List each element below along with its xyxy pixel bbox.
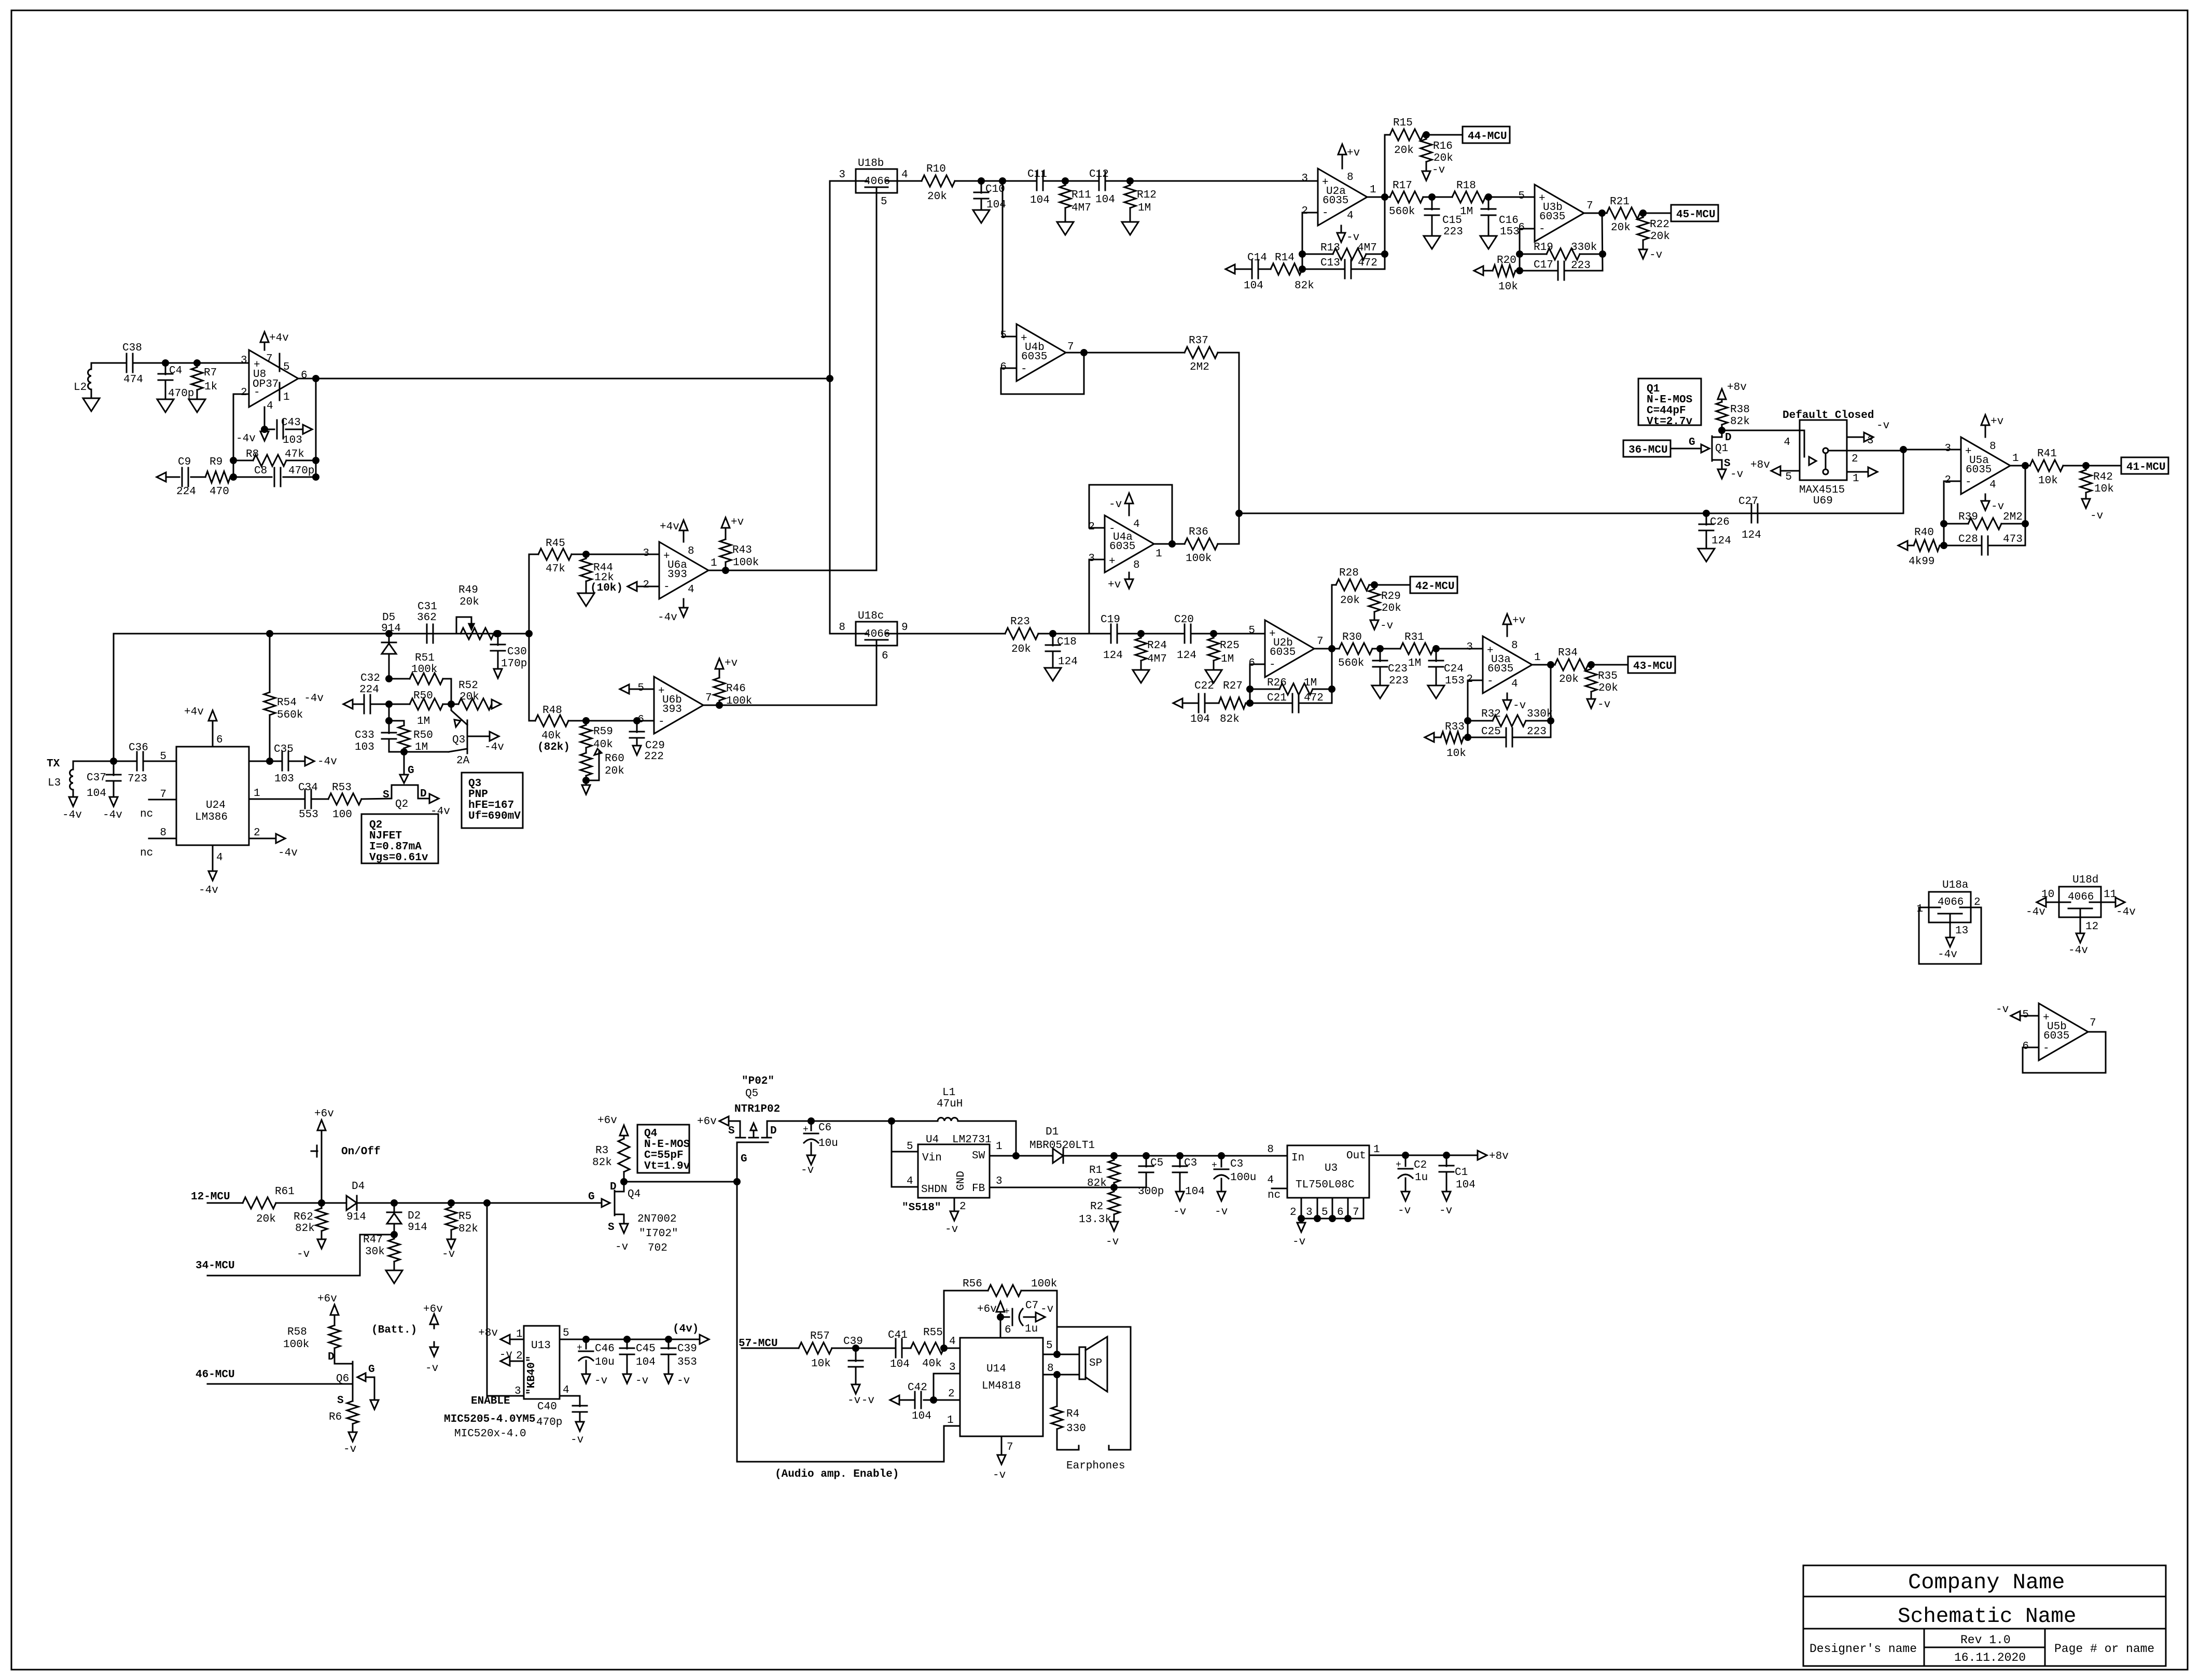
- pin2 wire U13: [500, 1356, 524, 1366]
- junction: [827, 376, 833, 382]
- svg-text:S: S: [1724, 458, 1731, 470]
- svg-text:100k: 100k: [1186, 553, 1212, 565]
- svg-text:3: 3: [643, 548, 649, 559]
- svg-text:4: 4: [901, 169, 908, 181]
- rail -4v L3: [69, 797, 77, 806]
- svg-text:R21: R21: [1610, 196, 1630, 208]
- svg-text:470p: 470p: [536, 1417, 562, 1429]
- junction Q4 drain: [621, 1179, 627, 1185]
- resistor R1: [1108, 1156, 1120, 1187]
- svg-text:SHDN: SHDN: [921, 1184, 947, 1196]
- pin 1 U4: [996, 1141, 1003, 1153]
- svg-text:-v: -v: [615, 1241, 628, 1253]
- label C45: [636, 1343, 656, 1355]
- label R18: [1456, 180, 1476, 192]
- label -v U13 pin2: [499, 1349, 512, 1361]
- svg-text:Vgs=0.61v: Vgs=0.61v: [369, 852, 428, 864]
- net arrow U5b pin5: [2011, 1011, 2039, 1020]
- rail -v R22: [1639, 249, 1647, 259]
- label -v R42: [2090, 510, 2103, 522]
- label +6v R58: [317, 1293, 337, 1305]
- capacitor C35: [282, 752, 305, 771]
- pin10 arrow U18d: [2037, 898, 2059, 907]
- svg-text:104: 104: [87, 788, 106, 800]
- rail -v C42: [890, 1395, 899, 1405]
- pin 5 U14: [1046, 1340, 1053, 1352]
- feedback U2a pin2: [1302, 213, 1318, 269]
- svg-text:914: 914: [408, 1222, 427, 1234]
- label Earphones: [1066, 1460, 1125, 1472]
- value C7 1u: [1025, 1323, 1038, 1335]
- svg-text:-: -: [1322, 207, 1329, 219]
- value R44 12k: [594, 572, 614, 584]
- value R13 4M7: [1357, 242, 1377, 254]
- label C28: [1958, 534, 1978, 545]
- svg-text:1u: 1u: [1415, 1172, 1428, 1184]
- label -4v C35: [317, 756, 337, 768]
- pin 7 U2b: [1317, 636, 1324, 648]
- pin7 stub U24: [149, 799, 176, 801]
- wire U2a out: [1367, 197, 1390, 198]
- label C32: [360, 673, 380, 684]
- loop wire U18a pins 1-2: [1919, 907, 1981, 964]
- label C27: [1738, 496, 1758, 508]
- svg-text:-v: -v: [343, 1444, 356, 1455]
- resistor R50 lower 1M: [389, 721, 410, 752]
- svg-text:NTR1P02: NTR1P02: [734, 1103, 780, 1115]
- audio enable wire: [737, 1182, 960, 1462]
- svg-text:C45: C45: [636, 1343, 656, 1355]
- net arrow C9: [157, 472, 166, 482]
- rail -4v U24 pin2: [276, 834, 285, 843]
- earphone jack brackets: [1057, 1446, 1131, 1450]
- pin2 stub U24: [249, 838, 276, 839]
- svg-text:C35: C35: [274, 744, 294, 755]
- label L1: [942, 1087, 955, 1099]
- value C5 300p: [1138, 1186, 1164, 1198]
- plus U6a: [663, 551, 670, 563]
- resistor R12: [1124, 181, 1136, 222]
- wire to U4b pin5: [1003, 181, 1017, 337]
- svg-text:20k: 20k: [256, 1213, 276, 1225]
- pin11 arrow U18d: [2101, 898, 2125, 907]
- bus vertical from U8 to U18b/U18c: [830, 181, 856, 634]
- value R36 100k: [1186, 553, 1212, 565]
- svg-text:104: 104: [1030, 194, 1050, 206]
- label C26: [1710, 516, 1730, 528]
- svg-text:D1: D1: [1046, 1126, 1059, 1138]
- label -4v U18a: [1938, 949, 1957, 961]
- refdes U5b: [2047, 1021, 2067, 1033]
- value C40 470p: [536, 1417, 562, 1429]
- svg-text:R26: R26: [1267, 677, 1287, 689]
- vertical TX to long wire: [113, 634, 115, 761]
- svg-text:6: 6: [1337, 1207, 1344, 1219]
- refdes U6a: [667, 559, 687, 571]
- svg-text:D: D: [1725, 432, 1732, 444]
- label C30: [507, 646, 527, 658]
- pin 2 U8: [241, 387, 247, 399]
- label -4v U6a: [658, 612, 677, 624]
- pin3 stub U14: [934, 1374, 960, 1400]
- value C29 222: [644, 751, 664, 763]
- capacitor C28: [1944, 536, 2025, 555]
- junction: [313, 458, 319, 464]
- junction: [1640, 211, 1646, 216]
- svg-text:6035: 6035: [1487, 663, 1513, 675]
- svg-text:-v: -v: [1996, 1004, 2009, 1016]
- svg-text:40k: 40k: [922, 1358, 942, 1370]
- analog switch U18c: [856, 622, 897, 646]
- label R2: [1090, 1201, 1103, 1213]
- svg-text:C14: C14: [1247, 252, 1267, 264]
- ground C24: [1428, 685, 1444, 698]
- pin 8 U14: [1047, 1363, 1054, 1375]
- rail +8v U69 pin5: [1771, 466, 1780, 475]
- svg-text:124: 124: [1742, 529, 1761, 541]
- svg-text:C20: C20: [1174, 614, 1194, 626]
- svg-text:4M7: 4M7: [1147, 653, 1167, 665]
- pin 13 U18a: [1955, 925, 1968, 937]
- pin 4 U2a: [1347, 210, 1354, 222]
- net arrow U6b pin5: [620, 684, 654, 694]
- svg-text:C24: C24: [1444, 663, 1464, 675]
- svg-text:8: 8: [1347, 172, 1354, 184]
- wire: [1053, 633, 1111, 635]
- pin 4 U69: [1784, 437, 1790, 449]
- rail -4v C32: [343, 699, 353, 709]
- label C3a: [1184, 1157, 1197, 1169]
- title Page # or name: [2054, 1642, 2154, 1656]
- svg-text:R51: R51: [415, 652, 435, 664]
- svg-text:47k: 47k: [546, 563, 565, 575]
- svg-text:-v: -v: [1730, 469, 1743, 481]
- svg-text:553: 553: [299, 809, 318, 821]
- resistor R51: [389, 673, 451, 704]
- svg-text:6035: 6035: [1539, 211, 1565, 223]
- svg-text:7: 7: [1007, 1441, 1013, 1453]
- svg-text:R50: R50: [413, 730, 433, 741]
- svg-text:U13: U13: [531, 1340, 551, 1352]
- svg-text:C31: C31: [417, 601, 437, 613]
- net arrow R20: [1474, 266, 1483, 275]
- resistor R39: [1944, 518, 2025, 529]
- pin 3 U3: [1306, 1207, 1313, 1219]
- junction: [1050, 631, 1056, 637]
- rail -v R5: [447, 1239, 455, 1249]
- pin8 stub U24: [149, 838, 176, 839]
- svg-text:-v: -v: [1649, 249, 1662, 261]
- value C24 153: [1445, 675, 1465, 687]
- value C37 104: [87, 788, 106, 800]
- svg-text:C38: C38: [122, 342, 142, 354]
- svg-text:R39: R39: [1958, 511, 1978, 523]
- label -4v U8: [236, 433, 256, 445]
- value R55 40k: [922, 1358, 942, 1370]
- junction: [717, 703, 722, 708]
- svg-text:Q3: Q3: [452, 734, 465, 746]
- part U6a 393: [667, 569, 687, 581]
- title Rev 1.0: [1960, 1633, 2011, 1647]
- label U18b: [858, 158, 884, 170]
- label -v R22: [1649, 249, 1662, 261]
- label -v R2: [1106, 1236, 1119, 1248]
- svg-text:+v: +v: [1512, 615, 1525, 627]
- capacitor C27: [1751, 504, 1758, 523]
- svg-text:5: 5: [1518, 190, 1525, 202]
- svg-text:Q3: Q3: [468, 778, 481, 790]
- R56 feedback branch: [944, 1291, 988, 1348]
- svg-text:4: 4: [688, 584, 694, 596]
- svg-text:82k: 82k: [458, 1223, 478, 1235]
- pin 3 U2a: [1301, 173, 1308, 185]
- svg-text:-: -: [1539, 223, 1546, 235]
- label R15: [1393, 117, 1413, 129]
- value R50 lower 1M: [415, 741, 428, 753]
- svg-text:1: 1: [1373, 1144, 1380, 1156]
- ground R60: [582, 785, 590, 794]
- capacitor C36: [137, 752, 143, 771]
- net arrow C22: [1173, 698, 1182, 708]
- svg-text:Q1: Q1: [1647, 383, 1660, 395]
- value R4 330: [1066, 1423, 1086, 1435]
- capacitor C23: [1373, 649, 1387, 685]
- label R57: [810, 1331, 830, 1342]
- label C21: [1267, 692, 1287, 704]
- pin 12 U18d: [2085, 921, 2098, 933]
- pin6 power U24: [208, 710, 217, 747]
- svg-text:223: 223: [1527, 726, 1547, 738]
- info Q2 line1: [369, 819, 382, 831]
- svg-text:R8: R8: [246, 449, 259, 460]
- wire Q5 drain: [767, 1121, 892, 1122]
- pin4 stub U8: [264, 407, 266, 430]
- label SP: [1089, 1357, 1102, 1369]
- label R50 lower: [413, 730, 433, 741]
- label -4v L3: [62, 809, 82, 821]
- label R44: [593, 562, 613, 574]
- label R46: [726, 683, 746, 695]
- part LM4818: [982, 1380, 1021, 1392]
- op-amp U3a: [1483, 636, 1532, 693]
- value R54 560k: [277, 709, 303, 721]
- pin 5 U3b: [1518, 190, 1525, 202]
- rail -v C3b: [1217, 1192, 1226, 1201]
- wire TX row: [73, 761, 137, 762]
- info Q3 line4: [468, 810, 521, 822]
- resistor R20: [1483, 265, 1520, 276]
- pin8 wire U14: [1043, 1374, 1079, 1376]
- capacitor C3b polarized: [1214, 1156, 1229, 1192]
- plus U5b: [2043, 1012, 2050, 1024]
- label -4v pin11: [2116, 906, 2136, 918]
- junction: [392, 1232, 397, 1238]
- pin 4 U14: [949, 1336, 956, 1348]
- label -v U14 pin7: [993, 1469, 1006, 1481]
- resistor R3: [618, 1136, 630, 1182]
- pin 4 U13: [563, 1384, 569, 1396]
- value L1 47uH: [937, 1098, 963, 1110]
- value R22 20k: [1650, 231, 1670, 243]
- label R61: [275, 1186, 295, 1198]
- svg-text:R36: R36: [1189, 526, 1208, 538]
- analog switch U18d: [2059, 887, 2101, 917]
- pin1 wire U3: [1369, 1155, 1478, 1156]
- wire U3b out: [1584, 213, 1607, 214]
- resistor R14: [1271, 263, 1302, 275]
- svg-text:124: 124: [1177, 650, 1196, 662]
- label C13: [1320, 257, 1340, 269]
- long wire to C27: [1239, 513, 1903, 514]
- svg-text:4: 4: [1133, 519, 1140, 530]
- svg-text:470: 470: [210, 486, 229, 498]
- svg-text:8: 8: [1989, 441, 1996, 453]
- rail -v R2: [1110, 1222, 1118, 1231]
- label 2A Q3: [456, 755, 470, 767]
- svg-text:1u: 1u: [1025, 1323, 1038, 1335]
- svg-text:Page # or name: Page # or name: [2054, 1642, 2154, 1656]
- svg-text:Q2: Q2: [395, 799, 408, 810]
- label -4v pin10: [2026, 906, 2045, 918]
- svg-text:Rev 1.0: Rev 1.0: [1960, 1633, 2011, 1647]
- svg-text:LM4818: LM4818: [982, 1380, 1021, 1392]
- svg-text:1M: 1M: [1138, 202, 1151, 214]
- part LM2731: [952, 1134, 992, 1146]
- pin 5 U3: [1321, 1207, 1328, 1219]
- junction: [1329, 687, 1335, 692]
- wire U6b out: [703, 705, 876, 706]
- pin 3 U14: [949, 1362, 956, 1374]
- pin5 wire U13: [560, 1339, 700, 1340]
- junction: [449, 1200, 454, 1206]
- svg-text:C27: C27: [1738, 496, 1758, 508]
- svg-text:12: 12: [2085, 921, 2098, 933]
- minus U2a: [1322, 207, 1329, 219]
- svg-text:S: S: [728, 1125, 735, 1137]
- label +6v R3: [597, 1115, 617, 1127]
- rail +6v Q5 source: [719, 1116, 740, 1126]
- svg-text:S: S: [337, 1395, 344, 1407]
- label GND rotated: [955, 1171, 967, 1191]
- label D2: [408, 1210, 421, 1222]
- junction: [1219, 1153, 1224, 1159]
- ground R24: [1133, 670, 1149, 683]
- minus U4a: [1109, 523, 1116, 535]
- wire 12-MCU: [207, 1202, 243, 1204]
- label R52: [458, 680, 478, 692]
- label MBR0520LT1: [1029, 1140, 1095, 1152]
- svg-text:16.11.2020: 16.11.2020: [1954, 1651, 2026, 1664]
- label C33: [355, 730, 374, 741]
- svg-text:100k: 100k: [1031, 1278, 1057, 1290]
- net arrow C43: [303, 425, 312, 434]
- label R30: [1342, 632, 1362, 643]
- svg-text:C17: C17: [1534, 259, 1553, 271]
- label nc U3: [1268, 1189, 1281, 1201]
- svg-text:2N7002: 2N7002: [637, 1213, 677, 1225]
- value C38 474: [123, 374, 143, 386]
- svg-text:+v: +v: [1991, 416, 2003, 428]
- wire Q2 drain: [418, 798, 429, 800]
- svg-text:20k: 20k: [1611, 222, 1631, 234]
- minus U6a: [663, 581, 670, 593]
- info Q2 line4: [369, 852, 428, 864]
- value C28 473: [2003, 534, 2023, 545]
- label D Q6: [328, 1351, 335, 1363]
- svg-text:1M: 1M: [1408, 657, 1421, 669]
- pin 6 U24: [216, 734, 223, 746]
- pin 4 U4: [907, 1175, 913, 1187]
- value R56 100k: [1031, 1278, 1057, 1290]
- power +v U5a: [1981, 415, 1989, 437]
- svg-text:C33: C33: [355, 730, 374, 741]
- pin 1 U6a: [711, 557, 717, 569]
- svg-text:R9: R9: [210, 456, 222, 468]
- minus U5a: [1965, 477, 1972, 488]
- refdes U69: [1813, 495, 1833, 507]
- power +v U3a: [1503, 614, 1511, 636]
- svg-text:+6v: +6v: [314, 1108, 334, 1120]
- label S Q6: [337, 1395, 344, 1407]
- value C13 472: [1358, 257, 1377, 269]
- svg-text:4066: 4066: [864, 628, 890, 640]
- svg-text:-v: -v: [499, 1349, 512, 1361]
- rail -v Q1 source: [1718, 469, 1726, 479]
- label Q2: [395, 799, 408, 810]
- pin 2 U18a: [1974, 897, 1981, 908]
- resistor R22: [1637, 213, 1649, 249]
- svg-text:C40: C40: [537, 1401, 557, 1413]
- value R41 10k: [2038, 475, 2058, 487]
- value C6 10u: [818, 1138, 838, 1150]
- svg-text:Earphones: Earphones: [1066, 1460, 1125, 1472]
- junction: [1941, 543, 1947, 549]
- label R45: [546, 538, 565, 550]
- pin 5 U2b: [1248, 625, 1255, 637]
- svg-text:4: 4: [1347, 210, 1354, 222]
- capacitor C37: [106, 761, 121, 797]
- label L2: [74, 382, 87, 394]
- svg-text:5: 5: [1000, 330, 1007, 342]
- ground C23: [1372, 685, 1388, 698]
- svg-text:7: 7: [1067, 341, 1074, 353]
- wire: [1436, 648, 1483, 650]
- resistor R27: [1219, 697, 1250, 709]
- capacitor C42: [899, 1392, 921, 1408]
- svg-text:-: -: [1965, 477, 1972, 488]
- resistor R48: [529, 715, 654, 726]
- pin 6 U2b: [1248, 657, 1255, 669]
- label R37: [1189, 335, 1208, 347]
- inductor L1: [892, 1118, 1016, 1122]
- pin1 wire U4: [990, 1155, 1053, 1157]
- svg-text:R1: R1: [1089, 1165, 1102, 1177]
- value C3a 104: [1185, 1186, 1205, 1198]
- svg-text:44-MCU: 44-MCU: [1468, 131, 1507, 143]
- svg-text:-: -: [1021, 363, 1027, 375]
- resistor R28: [1336, 579, 1410, 591]
- value R43 100k: [733, 557, 759, 569]
- label R34: [1558, 647, 1578, 659]
- transistor Q6 N-MOS mirrored: [335, 1362, 374, 1400]
- svg-text:100k: 100k: [411, 664, 437, 676]
- value R38 82k: [1730, 416, 1750, 428]
- svg-text:C43: C43: [281, 417, 301, 429]
- label D Q4: [610, 1181, 617, 1193]
- svg-text:20k: 20k: [1011, 643, 1031, 655]
- svg-text:C37: C37: [87, 772, 106, 784]
- label C40: [537, 1401, 557, 1413]
